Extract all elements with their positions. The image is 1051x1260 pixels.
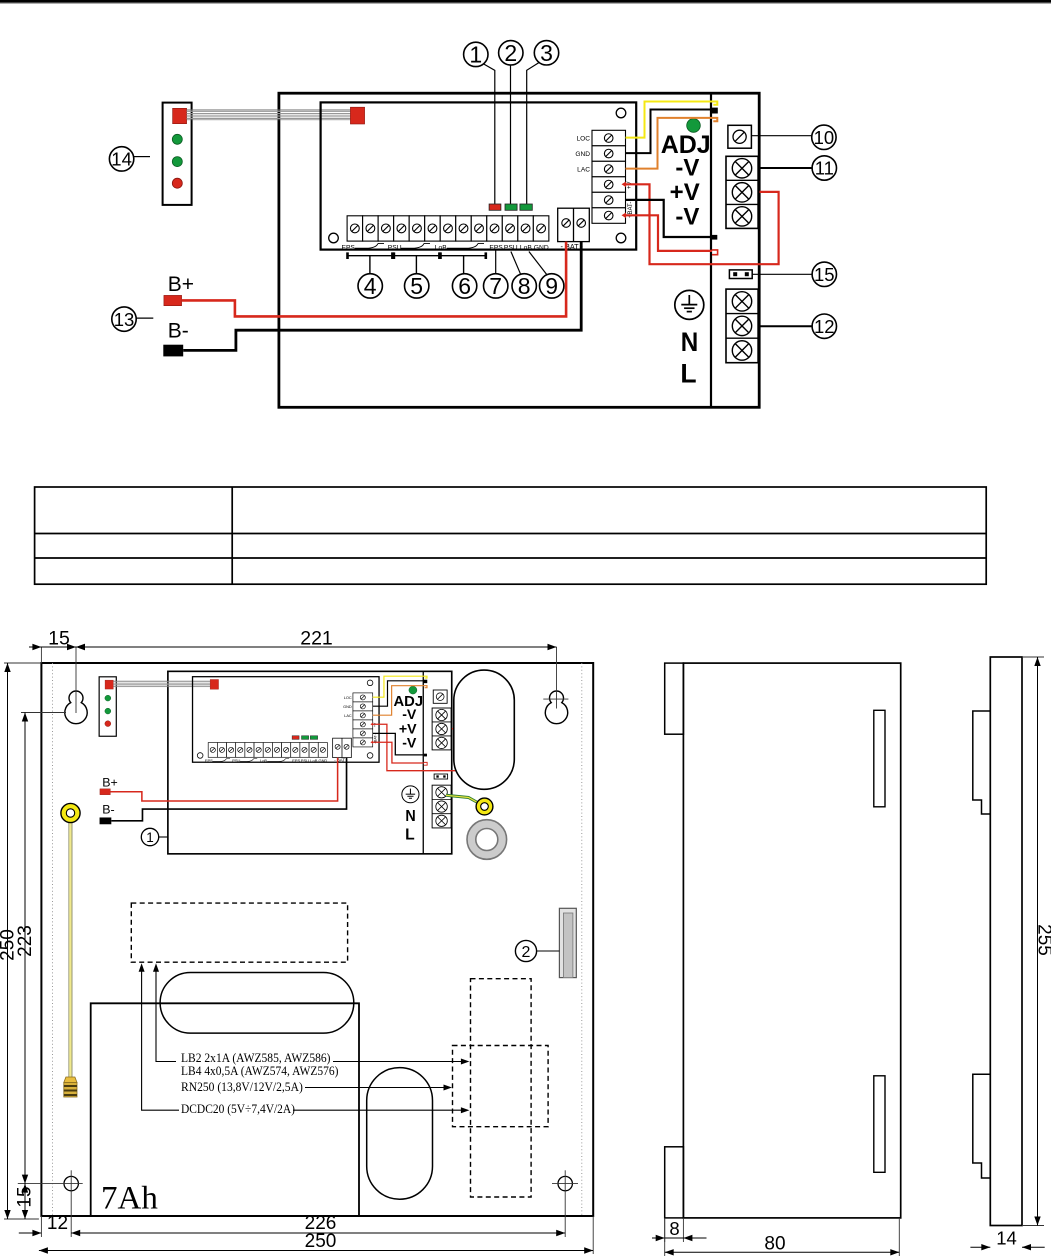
svg-text:5: 5 [410,273,423,299]
panel enclosure outline [41,663,593,1216]
svg-text:8: 8 [518,273,531,299]
svg-text:10: 10 [814,127,835,148]
svg-text:7: 7 [489,273,502,299]
svg-text:4: 4 [364,273,377,299]
lid lock strip (item 2) [559,908,576,977]
svg-text:2: 2 [522,944,531,961]
earth wire ferrule [64,1077,77,1097]
dimension 226 (bottom) [71,1213,565,1236]
svg-text:15: 15 [15,1186,36,1207]
callout 6 with bracket [441,252,486,299]
keyhole mount right [545,691,567,724]
earth ring terminal [61,803,80,822]
module label leaders [142,967,466,1111]
svg-text:LB4 4x0,5A (AWZ574, AWZ576): LB4 4x0,5A (AWZ574, AWZ576) [181,1063,339,1078]
callout 11 [758,156,836,180]
dimension 221 (top) [76,628,557,651]
label LB2/LB4 [181,1050,339,1078]
callout 12 [758,314,836,338]
callout 7 [484,251,508,300]
svg-text:80: 80 [764,1234,785,1255]
earth wire [69,822,72,1077]
svg-text:3: 3 [540,40,553,66]
dimension 15 (bottom-left) [15,1184,36,1219]
callout 13 [112,307,154,331]
fold line right (dotted) [581,663,583,1216]
side view bottom flange [665,1147,684,1218]
svg-text:14: 14 [996,1228,1017,1249]
svg-text:2: 2 [504,40,517,66]
callout 2 [499,40,523,204]
dimension 250 (left) [0,663,41,1219]
svg-text:RN250 (13,8V/12V/2,5A): RN250 (13,8V/12V/2,5A) [181,1079,303,1094]
mounting hole bottom-right [552,1170,578,1237]
callout 3 [527,40,559,204]
keyhole centerlines [76,647,568,713]
side view slot bottom [874,1076,885,1173]
horizontal vent cutout (stadium) [160,973,354,1034]
table [35,487,987,584]
svg-text:11: 11 [815,158,834,179]
wiring diagram (panel view copy) [99,671,463,853]
svg-text:8: 8 [669,1218,679,1239]
svg-text:7Ah: 7Ah [101,1181,158,1217]
vertical vent cutout (stadium) [367,1068,433,1200]
earth ring at enclosure stud [476,798,493,815]
svg-text:15: 15 [48,628,70,650]
callout 8 [511,252,537,300]
dimension 14 [970,1228,1044,1251]
battery outline 7Ah [91,1003,359,1216]
back view body [990,657,1022,1226]
header rule [0,0,1051,4]
callout 2 (lid lock) [515,940,559,961]
dimension 12 (bottom) [19,1213,68,1237]
svg-text:15: 15 [814,264,835,285]
svg-text:9: 9 [545,273,558,299]
svg-text:13: 13 [114,309,135,330]
module bay 3 (dashed wide) [453,1046,549,1127]
dimension 80 [665,1218,900,1256]
callout 4 with bracket [348,252,393,299]
callout 14 [109,147,150,171]
svg-text:DCDC20 (5V÷7,4V/2A): DCDC20 (5V÷7,4V/2A) [181,1101,295,1116]
fold line left (dotted) [52,663,54,1216]
cable grommet [467,820,507,860]
svg-text:14: 14 [111,149,132,170]
callout 15 [752,262,836,286]
callout 5 with bracket [394,252,440,299]
callout 10 [751,125,836,149]
dimension 8 [652,1218,707,1242]
svg-text:12: 12 [814,316,835,337]
svg-text:1: 1 [146,830,154,845]
dimension 15 (top) [29,628,90,664]
cable cutout (stadium) [454,670,515,789]
svg-text:250: 250 [305,1231,337,1252]
callout 1 [464,42,495,204]
protective earth wire (green/yellow) [446,795,478,802]
back view bracket bottom [973,1074,991,1178]
dimension 250 (bottom) [39,1216,593,1254]
side view slot top [874,710,885,807]
module bay 2 (dashed tall) [471,979,532,1197]
mounting hole bottom-left [18,1170,83,1237]
svg-text:1: 1 [469,42,482,68]
svg-text:6: 6 [458,273,471,299]
wiring diagram (main instance) [163,93,779,407]
svg-text:223: 223 [15,925,36,957]
callout 9 [529,252,564,300]
callout 1 (psu module) [141,828,168,845]
back view bracket top [973,711,991,814]
dimension 255 [1022,657,1051,1226]
side view top flange [665,663,684,734]
dimension 223 (left) [15,713,66,1184]
keyhole mount left [65,691,87,724]
svg-text:221: 221 [300,628,333,650]
side view body [683,663,900,1218]
module bay 1 (dashed) [131,903,347,962]
svg-text:255: 255 [1034,924,1051,956]
svg-text:12: 12 [47,1213,68,1234]
